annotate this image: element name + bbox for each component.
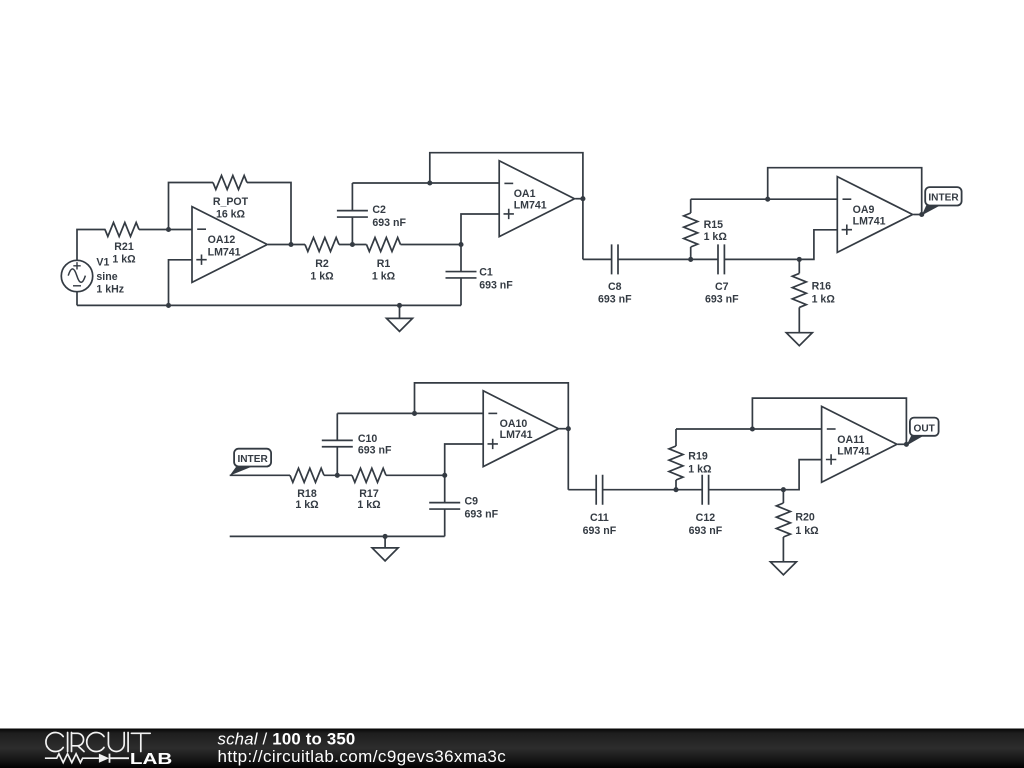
svg-text:R18: R18 xyxy=(297,488,317,500)
svg-text:C1: C1 xyxy=(479,266,493,278)
svg-text:LM741: LM741 xyxy=(853,215,886,227)
svg-text:1 kΩ: 1 kΩ xyxy=(357,499,381,511)
svg-text:1 kHz: 1 kHz xyxy=(96,284,124,296)
svg-text:693 nF: 693 nF xyxy=(479,279,513,291)
svg-text:693 nF: 693 nF xyxy=(358,445,392,457)
svg-text:OA9: OA9 xyxy=(853,204,875,216)
svg-text:LM741: LM741 xyxy=(514,200,547,212)
svg-text:C8: C8 xyxy=(608,281,622,293)
svg-text:R21: R21 xyxy=(114,241,134,253)
svg-text:693 nF: 693 nF xyxy=(583,525,617,537)
svg-text:693 nF: 693 nF xyxy=(465,508,499,520)
svg-text:V1: V1 xyxy=(96,257,109,269)
svg-text:C12: C12 xyxy=(696,512,716,524)
svg-text:http://circuitlab.com/c9gevs36: http://circuitlab.com/c9gevs36xma3c xyxy=(218,747,507,766)
svg-text:R1: R1 xyxy=(377,258,391,270)
svg-text:C7: C7 xyxy=(715,281,729,293)
svg-text:sine: sine xyxy=(96,271,117,283)
svg-text:OA11: OA11 xyxy=(837,434,864,446)
svg-text:16 kΩ: 16 kΩ xyxy=(216,208,246,220)
svg-text:R17: R17 xyxy=(359,488,379,500)
svg-text:C9: C9 xyxy=(465,495,479,507)
svg-text:schal / 100 to 350: schal / 100 to 350 xyxy=(218,729,356,748)
svg-text:1 kΩ: 1 kΩ xyxy=(310,270,334,282)
svg-text:693 nF: 693 nF xyxy=(372,217,406,229)
svg-text:1 kΩ: 1 kΩ xyxy=(372,270,396,282)
svg-text:LM741: LM741 xyxy=(500,429,533,441)
svg-text:1 kΩ: 1 kΩ xyxy=(812,294,836,306)
svg-text:OA1: OA1 xyxy=(514,188,536,200)
svg-text:R19: R19 xyxy=(688,451,708,463)
svg-text:R20: R20 xyxy=(795,511,815,523)
svg-text:C11: C11 xyxy=(590,512,609,524)
svg-text:R15: R15 xyxy=(704,219,724,231)
svg-text:R16: R16 xyxy=(812,280,832,292)
svg-text:C2: C2 xyxy=(372,204,386,216)
svg-text:1 kΩ: 1 kΩ xyxy=(795,525,819,537)
svg-text:1 kΩ: 1 kΩ xyxy=(112,254,136,266)
svg-text:LM741: LM741 xyxy=(837,445,870,457)
svg-text:693 nF: 693 nF xyxy=(598,294,632,306)
svg-text:OUT: OUT xyxy=(914,423,936,434)
svg-text:693 nF: 693 nF xyxy=(689,525,723,537)
svg-text:C10: C10 xyxy=(358,433,378,445)
svg-text:1 kΩ: 1 kΩ xyxy=(295,499,319,511)
svg-text:R_POT: R_POT xyxy=(213,196,249,208)
svg-text:LM741: LM741 xyxy=(208,246,241,258)
svg-text:LAB: LAB xyxy=(130,751,172,768)
svg-text:OA12: OA12 xyxy=(208,234,236,246)
svg-text:1 kΩ: 1 kΩ xyxy=(704,231,728,243)
svg-text:R2: R2 xyxy=(315,258,329,270)
svg-text:INTER: INTER xyxy=(237,454,268,465)
svg-text:693 nF: 693 nF xyxy=(705,294,739,306)
svg-text:INTER: INTER xyxy=(928,193,959,204)
svg-text:1 kΩ: 1 kΩ xyxy=(688,464,712,476)
svg-text:OA10: OA10 xyxy=(500,418,528,430)
